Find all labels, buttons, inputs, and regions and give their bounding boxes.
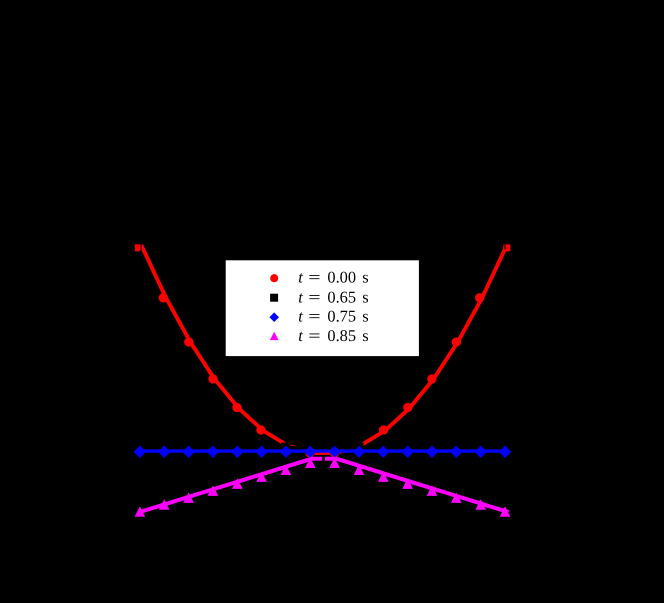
svg-text:s: s [362,326,368,345]
legend text row 4: t = 0.85 s [298,326,368,345]
black square markers t=0.65 s [135,443,509,457]
legend text row 3: t = 0.75 s [298,307,368,326]
legend marker black square [270,294,278,302]
svg-text:s: s [362,287,368,306]
blue diamond markers [134,446,512,458]
svg-text:0.85: 0.85 [327,326,356,345]
svg-text:0.75: 0.75 [327,307,356,326]
legend marker red circle [270,274,278,282]
svg-text:=: = [308,307,320,326]
svg-text:0.65: 0.65 [327,287,356,306]
magenta triangle markers [135,458,511,517]
gap between left/right traveling waves at centre [322,456,325,461]
svg-text:t: t [298,268,303,287]
red curve t=0.00 s: exact-solution line [142,246,507,453]
gap sliver left end between marker and line [141,244,142,249]
svg-text:=: = [308,287,320,306]
svg-text:s: s [362,307,368,326]
legend marker magenta triangle [270,332,279,340]
svg-text:=: = [308,326,320,345]
legend text row 2: t = 0.65 s [298,287,368,306]
legend marker blue diamond [269,312,279,322]
red circle markers (numerical points) [133,242,513,457]
svg-text:t: t [298,287,303,306]
magenta curve t=0.85 s: exact-solution line [142,459,507,512]
svg-text:t: t [298,307,303,326]
svg-text:=: = [308,268,320,287]
legend text row 1: t = 0.00 s [298,268,368,287]
svg-text:t: t [298,326,303,345]
legend box [225,260,419,357]
gap sliver right end between line and marker [505,244,506,249]
svg-text:s: s [362,268,368,287]
svg-text:0.00: 0.00 [327,268,356,287]
black curve t=0.65 s (invisible on black bg; occludes red near centre) [140,447,505,452]
blue line t=0.75 s [140,449,505,452]
